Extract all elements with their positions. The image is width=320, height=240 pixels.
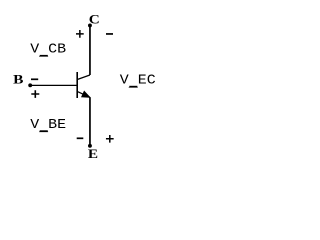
svg-text:V_EC: V_EC xyxy=(120,73,156,91)
svg-text:E: E xyxy=(88,148,98,161)
svg-text:B: B xyxy=(13,72,24,87)
svg-text:V_BE: V_BE xyxy=(30,117,66,135)
svg-text:C: C xyxy=(89,13,100,26)
svg-text:V_CB: V_CB xyxy=(30,42,66,60)
